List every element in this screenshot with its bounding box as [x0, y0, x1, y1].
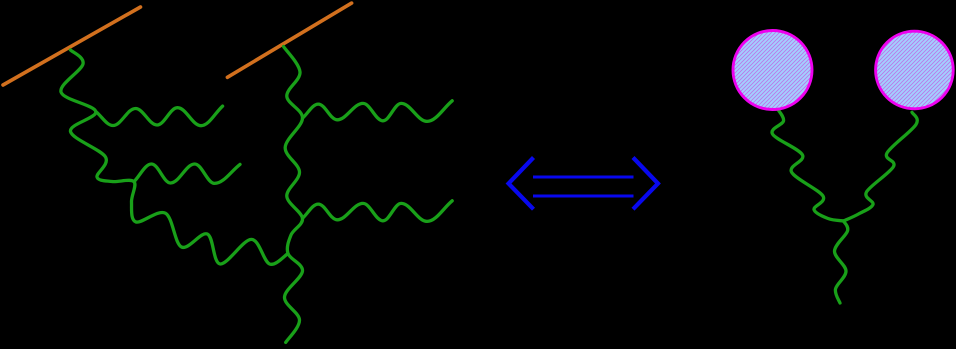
grafted chain B backbone	[284, 47, 303, 343]
micelle chain 1	[772, 109, 843, 221]
side chain A2	[134, 164, 240, 183]
equivalence double arrow	[509, 158, 659, 210]
side chain B1	[303, 101, 453, 122]
micelle tail chain	[834, 221, 847, 303]
grafted chain A backbone	[61, 50, 288, 264]
side chain A1	[96, 106, 223, 126]
surface line 2	[227, 3, 351, 77]
side chain B2	[303, 201, 453, 222]
micelle chain 2	[844, 112, 918, 221]
micelle core 2	[876, 31, 954, 109]
surface line 1	[3, 7, 141, 85]
micelle core 1	[733, 31, 812, 110]
